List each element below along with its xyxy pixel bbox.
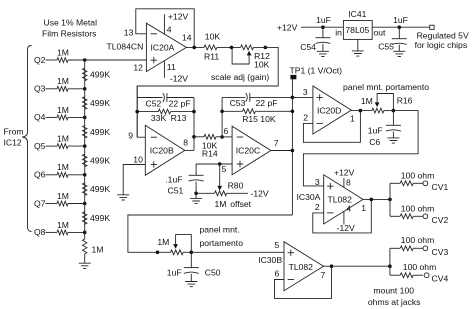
capacitor C50 1uF [167,252,221,281]
capacitor C52 22pF [137,93,194,109]
svg-text:TL082: TL082 [289,262,314,272]
ground (C55) [393,51,405,56]
svg-text:8: 8 [183,138,188,148]
resistor 499K (bus Q2-Q3) [83,68,111,80]
svg-text:C6: C6 [369,137,380,147]
svg-text:11: 11 [167,62,176,72]
ground (IC41) [352,51,364,56]
svg-text:Q7: Q7 [34,198,46,208]
pin 1 label IC30A [361,203,366,213]
svg-text:5: 5 [222,164,227,174]
wire IC20C output [271,150,293,152]
svg-text:10K: 10K [260,114,276,124]
resistor R11 10K [204,31,220,61]
svg-text:1M: 1M [57,162,69,172]
svg-text:12: 12 [133,63,143,73]
pin 2 label IC30A [315,202,320,212]
svg-text:C51: C51 [168,186,184,196]
wire Q3 resistor to bus [68,88,85,90]
potentiometer R16 1M portamento [361,94,413,114]
svg-text:1uF: 1uF [368,125,383,135]
pin 11 stub -12V [164,61,188,84]
svg-text:C50: C50 [205,267,221,277]
junction IC20C fb c53 [291,96,295,100]
junction R12 left [230,46,234,50]
resistor 1M (Q5 input) [57,134,69,149]
svg-text:3: 3 [315,177,320,187]
svg-text:C55: C55 [378,41,394,51]
wire 1M to ground [84,254,86,263]
svg-text:10K: 10K [205,31,221,41]
op-amp U IC30A [324,175,363,224]
svg-text:R15: R15 [242,114,258,124]
wire IC20B output [185,149,194,151]
svg-text:10K: 10K [254,59,270,69]
svg-text:+12V: +12V [334,167,355,177]
junction C54 [321,25,325,29]
ground (C54) [317,51,329,56]
svg-text:in: in [335,28,342,38]
wire IC30B output [324,265,390,267]
wire Q7 resistor to bus [68,203,85,205]
wire IC20D output [351,110,372,112]
svg-text:Q8: Q8 [34,227,46,237]
pin 5 label [222,164,227,174]
junction IC20B input feedback [135,110,139,114]
svg-text:499K: 499K [90,213,110,223]
note mount 100 ohms at jacks [368,286,421,307]
wire IC20C input vertical [221,97,223,136]
resistor 1M (bus to ground) [83,239,104,255]
wire IC20C output vertical [291,79,293,215]
svg-text:Q5: Q5 [34,141,46,151]
wire IC20B pin10 to ground [123,165,145,195]
wire Q3 to resistor [46,88,58,90]
svg-text:1uF: 1uF [393,15,408,25]
svg-text:-12V: -12V [337,223,355,233]
wire Q2 bus to IC20A pin 12 [85,59,147,61]
wire Q7 to resistor [46,203,58,205]
label +12V supply [277,22,298,32]
capacitor C53 22pF [222,93,292,108]
wire pin3 IC20D [292,96,313,98]
junction C50 [190,251,194,255]
label panel mnt. portamento (bottom) [200,224,244,248]
svg-text:IC20A: IC20A [151,42,175,52]
junction Q5 bus [83,144,87,148]
label -12V (R80) [251,188,269,198]
svg-text:R16: R16 [397,96,413,106]
wire Q6 to resistor [46,174,58,176]
resistor 499K (bus Q7-Q8) [83,212,111,224]
resistor R14 10K [194,134,222,158]
capacitor C6 1uF [368,111,401,147]
node Q3 input label [34,84,46,94]
junction IC20D output [359,109,363,113]
wire IC30A output [363,198,390,200]
junction C55 [398,25,402,29]
label IC30B [258,255,282,265]
node Q4 input label [34,112,46,122]
resistor 1M (Q7 input) [57,191,69,206]
svg-text:1M: 1M [57,47,69,57]
pin 12 label [133,63,143,73]
junction Q8 bus [83,231,87,235]
wire Q5 to resistor [46,145,58,147]
jack CV1 [423,181,448,192]
svg-text:+12V: +12V [277,22,298,32]
junction Q7 bus [83,202,87,206]
svg-text:1: 1 [350,114,355,124]
svg-text:CV1: CV1 [432,182,449,192]
wire Q8 resistor to bus [68,231,85,233]
wire Q6 resistor to bus [68,174,85,176]
svg-text:IC20C: IC20C [236,146,260,156]
svg-text:R13: R13 [171,113,187,123]
label scale adj (gain) [211,72,269,82]
svg-text:C53: C53 [230,98,246,108]
test point TP1 [290,66,343,80]
svg-text:panel mnt. portamento: panel mnt. portamento [343,82,429,92]
svg-text:IC30B: IC30B [258,255,282,265]
svg-text:Use 1% Metal: Use 1% Metal [44,17,98,27]
wire IC20B input vertical [136,86,138,137]
ground (C6) [387,138,399,143]
regulator U IC41 78L05 [335,9,386,39]
svg-text:4: 4 [346,204,351,214]
svg-text:7: 7 [274,138,279,148]
pin 3 label [303,87,308,97]
junction pin5 wiper [218,162,222,166]
svg-text:10: 10 [133,155,143,165]
resistor 499K (bus Q5-Q6) [83,154,111,166]
svg-text:scale adj (gain): scale adj (gain) [211,72,269,82]
svg-text:C54: C54 [300,42,316,52]
label Regulated 5V [415,30,469,50]
wire Q5 resistor to bus [68,145,85,147]
junction IC30A fb [370,198,374,202]
node Q6 input label [34,170,46,180]
svg-text:Regulated 5V: Regulated 5V [417,30,469,40]
svg-text:1M: 1M [215,199,227,209]
svg-text:6: 6 [275,269,280,279]
junction Q6 bus [83,173,87,177]
svg-text:.1uF: .1uF [165,174,182,184]
op-amp U IC30B [284,242,324,291]
node From IC12 label [4,127,24,148]
brace for From IC12 inputs [22,46,31,232]
jack CV4 [424,273,448,284]
svg-text:mount 100: mount 100 [373,286,414,296]
node Q5 input label [34,141,46,151]
svg-text:+12V: +12V [168,12,189,22]
pin 7 label IC30B [321,270,326,280]
wire R16 to IC30A pin3 [303,111,418,186]
svg-text:6: 6 [224,126,229,136]
jack CV3 [423,246,448,257]
node Q8 input label [34,227,46,237]
capacitor C55 1uF [378,15,408,51]
capacitor C54 1uF [300,15,331,52]
svg-text:2: 2 [303,112,308,122]
resistor 1M (Q2 input) [57,47,69,62]
svg-text:100 ohm: 100 ohm [401,235,434,245]
svg-text:1M: 1M [157,237,169,247]
svg-text:Q4: Q4 [34,112,46,122]
resistor 499K (bus Q4-Q5) [83,126,111,138]
resistor 499K (bus Q3-Q4) [83,97,111,109]
svg-text:offset: offset [230,199,251,209]
junction R16 right [392,109,396,113]
junction Q2 bus [83,58,87,62]
svg-text:R14: R14 [202,148,218,158]
op-amp U IC20C [232,126,271,175]
resistor 1M (Q3 input) [57,76,69,91]
wire IC20C pin5 [196,163,232,165]
pin 6 label IC30B [275,269,280,279]
wire Q2 resistor to bus [68,59,85,61]
wire IC30B feedback [275,266,332,298]
label IC30A [297,192,321,202]
pin 9 label [128,131,133,141]
svg-text:1: 1 [361,203,366,213]
svg-text:33K: 33K [151,113,167,123]
wire Q2 to resistor [46,59,58,61]
svg-text:-12V: -12V [170,74,188,84]
wire CV1 CV2 split [389,183,391,216]
svg-text:499K: 499K [90,155,110,165]
pin 6 label [224,126,229,136]
svg-text:IC30A: IC30A [297,192,321,202]
svg-text:TP1 (1 V/Oct): TP1 (1 V/Oct) [290,66,343,76]
label TL084CN [107,42,144,52]
svg-text:for logic chips: for logic chips [415,40,468,50]
pin 5 label IC30B [275,240,280,250]
wire R12 to IC20B input [137,47,278,137]
pin 13 label [124,28,134,38]
junction R12 right [264,46,268,50]
svg-text:panel mnt.: panel mnt. [200,224,240,234]
junction Q4 bus [83,116,87,120]
svg-text:1M: 1M [57,76,69,86]
wire bus bottom to 1M [84,232,86,239]
svg-text:R11: R11 [204,52,219,62]
svg-text:499K: 499K [90,184,110,194]
pin 8 stub +12V (IC30A) [334,167,355,187]
svg-text:7: 7 [321,270,326,280]
svg-text:14: 14 [182,32,192,42]
resistor 100 ohm CV2 [390,203,434,218]
resistor R15 10K [222,109,292,124]
junction IC30B fb [330,264,334,268]
svg-text:1uF: 1uF [316,15,331,25]
resistor R13 33K [137,109,194,123]
wire CV3 CV4 split [389,248,391,275]
wire summing bus vertical [84,60,86,232]
wire IC20D feedback [303,111,360,143]
junction IC20C fb left [220,110,224,114]
op-amp U IC20D [313,86,351,134]
pin 7 label [274,138,279,148]
svg-text:499K: 499K [90,127,110,137]
wire Q4 resistor to bus [68,116,85,118]
svg-text:From: From [4,127,24,137]
pin 8 label [183,138,188,148]
resistor 1M (Q6 input) [57,162,69,177]
trimmer R12 10K scale adj [232,45,270,69]
svg-text:1M: 1M [57,134,69,144]
wire Q8 to resistor [46,231,58,233]
resistor 1M (Q4 input) [57,105,69,120]
junction IC20A output [192,46,196,50]
pin 14 label [182,32,192,42]
svg-text:3: 3 [303,87,308,97]
ground (IC20B pin10) [117,195,129,200]
svg-text:CV4: CV4 [432,274,449,284]
pin 2 label [303,112,308,122]
svg-text:2: 2 [315,202,320,212]
op-amp U IC20A [146,23,186,71]
svg-text:22 pF: 22 pF [169,99,191,109]
wire IC30A feedback [313,199,372,233]
svg-text:22 pF: 22 pF [256,98,278,108]
svg-text:4: 4 [167,25,172,35]
node Q7 input label [34,198,46,208]
svg-text:Q6: Q6 [34,170,46,180]
junction CV12 split [388,198,392,202]
svg-text:IC20D: IC20D [317,106,341,116]
svg-text:C52: C52 [146,99,162,109]
svg-text:1M: 1M [57,191,69,201]
junction CV34 split [388,264,392,268]
svg-text:Q3: Q3 [34,84,46,94]
jack CV2 [423,214,448,225]
svg-text:CV2: CV2 [432,215,449,225]
resistor 1M (Q8 input) [57,220,69,235]
label panel mnt. portamento (R16) [343,82,429,92]
trimmer R80 1M offset [196,164,252,209]
wire IC20C out to portamento [128,215,293,252]
svg-text:-12V: -12V [251,188,269,198]
wire pot left [158,251,171,253]
ground (bus bottom) [79,263,91,268]
svg-text:ohms at jacks: ohms at jacks [368,297,421,307]
svg-text:IC41: IC41 [348,9,366,19]
svg-text:78L05: 78L05 [345,25,369,35]
svg-text:IC12: IC12 [4,138,22,148]
svg-text:1M: 1M [57,220,69,230]
svg-text:5: 5 [275,240,280,250]
pin 3 label IC30A [315,177,320,187]
pin 10 label [133,155,143,165]
junction portamento left [156,251,160,255]
svg-text:100 ohm: 100 ohm [403,262,436,272]
svg-text:IC20B: IC20B [150,145,174,155]
wire IC20B output vertical [193,98,195,151]
junction C51 ground [194,192,198,196]
svg-text:100 ohm: 100 ohm [401,203,434,213]
junction IC20C fb r15 [291,110,295,114]
resistor 100 ohm CV3 [390,235,434,251]
ground (C50) [185,282,197,287]
svg-text:499K: 499K [90,69,110,79]
ground (C51/R80) [190,193,202,203]
junction Q3 bus [83,87,87,91]
svg-text:TL084CN: TL084CN [107,42,144,52]
capacitor C51 .1uF [165,164,203,196]
resistor 499K (bus Q6-Q7) [83,183,111,195]
svg-text:out: out [374,28,387,38]
svg-text:1uF: 1uF [167,267,182,277]
pin 4 stub +12V [164,12,188,35]
resistor 100 ohm CV1 [390,171,434,186]
svg-text:R80: R80 [228,181,244,191]
svg-text:8: 8 [346,178,351,188]
wire IC20A output [186,46,204,48]
wire portamento to IC30B pin5 [191,251,284,253]
svg-text:499K: 499K [90,98,110,108]
junction IC20B output [192,135,196,139]
svg-text:Q2: Q2 [34,55,46,65]
wire Q4 to resistor [46,116,58,118]
junction IC20C pin6 [220,135,224,139]
potentiometer 1M portamento (panel mnt.) [157,235,191,255]
svg-text:1M: 1M [57,105,69,115]
pin 1 label [350,114,355,124]
junction IC20C output [291,149,295,153]
wire IC20C pin6 [222,136,232,138]
resistor 100 ohm CV4 [390,262,436,277]
svg-text:13: 13 [124,28,134,38]
terminal regulated 5V [430,25,434,29]
note: use 1% metal film resistors [42,17,97,38]
wire IC41 ground [357,39,359,51]
pin 4 stub -12V (IC30A) [337,204,355,234]
svg-text:CV3: CV3 [432,247,449,257]
junction IC20B fb right [192,110,196,114]
wire +12V rail [301,26,430,28]
svg-text:portamento: portamento [200,238,244,248]
svg-text:1M: 1M [361,96,373,106]
svg-text:9: 9 [128,131,133,141]
wire IC20A feedback pin13 [136,9,194,48]
wire R11 to R12 [217,46,241,48]
node Q2 input label [34,55,46,65]
svg-text:100 ohm: 100 ohm [401,171,434,181]
svg-text:1M: 1M [92,245,104,255]
svg-text:Film Resistors: Film Resistors [42,29,96,39]
op-amp U IC20B [145,125,185,175]
